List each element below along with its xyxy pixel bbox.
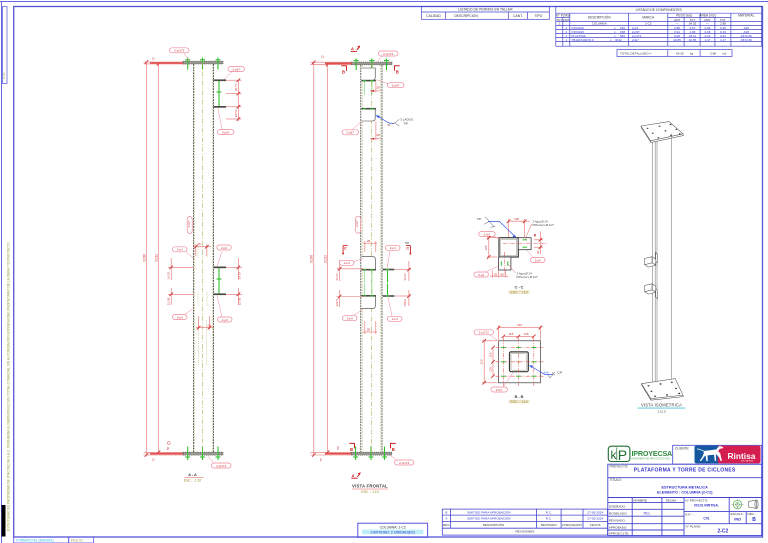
svg-text:REVISIONES: REVISIONES	[515, 530, 534, 534]
svg-text:REVISADO:: REVISADO:	[609, 518, 626, 522]
svg-text:LISTADO DE COMPONENTES: LISTADO DE COMPONENTES	[636, 8, 683, 12]
mid clip2 top bar	[361, 295, 376, 297]
tube edge left	[193, 64, 195, 452]
svg-text:CALIDAD: CALIDAD	[426, 14, 441, 18]
weld note CJP	[529, 365, 562, 378]
blue data rows	[565, 26, 752, 42]
svg-text:00101 RINTISA.: 00101 RINTISA.	[694, 504, 719, 508]
svg-text:3.012: 3.012	[154, 254, 158, 262]
svg-text:100.9: 100.9	[403, 299, 407, 307]
svg-text:FORMATO A1 (594x841): FORMATO A1 (594x841)	[16, 539, 54, 543]
svg-text:REV. :: REV. :	[748, 512, 757, 516]
svg-text:31: 31	[387, 123, 391, 127]
TABLE: LISTADO DE COMPONENTES	[556, 7, 762, 57]
label 2-tb7	[479, 232, 500, 240]
tube square	[499, 238, 518, 257]
weld marks clips	[218, 81, 220, 293]
svg-text:2-p4: 2-p4	[390, 246, 396, 250]
label 2-p4 d	[217, 296, 232, 323]
svg-text:2-p4: 2-p4	[221, 246, 227, 250]
svg-text:REVISADO: REVISADO	[541, 523, 558, 527]
hidden hole lines mid	[198, 247, 207, 366]
svg-text:3012: 3012	[615, 38, 622, 42]
svg-text:AREA (m2): AREA (m2)	[699, 13, 716, 17]
svg-text:PLATAFORMA Y TORRE DE CICLONES: PLATAFORMA Y TORRE DE CICLONES	[634, 468, 736, 474]
bottom plate	[499, 257, 511, 270]
svg-text:ESTRUCTURA METALICA: ESTRUCTURA METALICA	[661, 485, 708, 489]
label 2-p4 b	[217, 245, 232, 267]
svg-text:27-05-2024: 27-05-2024	[587, 517, 603, 521]
small table labels	[609, 498, 756, 535]
label 2-p/172 bottom	[207, 455, 231, 468]
bottom B markers	[350, 447, 395, 452]
svg-text:118: 118	[509, 332, 514, 336]
svg-text:p: p	[153, 57, 155, 61]
svg-text:40.85: 40.85	[673, 38, 681, 42]
svg-text:RCL: RCL	[644, 511, 651, 515]
dim 125 left	[484, 236, 500, 259]
svg-text:2-p4: 2-p4	[177, 315, 183, 319]
section marker A top	[351, 46, 361, 52]
title	[638, 403, 686, 414]
svg-text:2-tb7: 2-tb7	[632, 38, 639, 42]
dims 25 50 bottom	[490, 271, 508, 278]
svg-text:p: p	[153, 458, 155, 462]
svg-text:310: 310	[480, 359, 484, 364]
red thick plate edge top	[150, 62, 183, 64]
svg-text:DESCRIPCION: DESCRIPCION	[454, 14, 478, 18]
R marker + dim 28 right	[534, 231, 543, 254]
note 2 aguj bottom	[517, 272, 538, 280]
mid dims right	[395, 261, 411, 306]
label 2-tb7	[491, 373, 513, 393]
svg-text:12.05: 12.05	[237, 297, 241, 305]
svg-text:R.C.: R.C.	[546, 517, 552, 521]
red centerline horizontal	[503, 243, 548, 245]
red centerline vertical	[504, 252, 506, 275]
svg-text:P/Perno's Ø 1/2": P/Perno's Ø 1/2"	[533, 223, 554, 227]
weld marks top	[354, 59, 389, 71]
label 2-p4 left-bottom	[474, 266, 499, 277]
svg-text:54.35: 54.35	[676, 52, 684, 56]
BOTTOM CENTER BOX: COLUMNA 2-C2	[358, 523, 428, 537]
svg-text:COLUMNA: COLUMNA	[592, 22, 607, 26]
dim 28 center top	[194, 242, 211, 256]
mid welds green verticals	[364, 271, 372, 296]
svg-text:2-p/172: 2-p/172	[479, 331, 490, 335]
weld marks top	[185, 58, 220, 70]
center dot	[517, 361, 519, 363]
svg-text:28: 28	[367, 239, 371, 243]
base plate	[642, 379, 684, 399]
svg-text:p: p	[320, 457, 322, 461]
label 2-p/172	[474, 330, 499, 342]
svg-text:128: 128	[514, 217, 519, 221]
svg-text:EMITIDO PARA APROBACIÓN: EMITIDO PARA APROBACIÓN	[467, 509, 510, 514]
svg-text:C: C	[406, 247, 409, 251]
svg-text:FECHA: FECHA	[590, 523, 601, 527]
svg-text:ESTE PLANO ES PROPIEDAD DE IPR: ESTE PLANO ES PROPIEDAD DE IPROYECSA S.A…	[7, 242, 11, 531]
svg-text:IND: IND	[734, 517, 741, 522]
svg-text:2-tb7: 2-tb7	[355, 220, 359, 227]
clip 1 top right	[214, 79, 227, 81]
svg-text:14.27: 14.27	[335, 273, 339, 281]
label 2-p67 clip2	[342, 121, 362, 135]
mid-right dims	[226, 258, 242, 305]
clip iso 2	[645, 284, 657, 294]
svg-text:2-C2: 2-C2	[717, 529, 728, 535]
svg-text:P/Perno's Ø 1/2": P/Perno's Ø 1/2"	[517, 275, 538, 279]
label 2-p/172 bottom	[390, 455, 414, 465]
svg-text:REV.: REV.	[443, 523, 450, 527]
label 2-p4 c	[173, 308, 195, 320]
svg-text:28: 28	[197, 242, 201, 246]
svg-text:TOTAL DETALLADO =: TOTAL DETALLADO =	[620, 52, 651, 56]
total row	[620, 52, 727, 56]
mid clip2 rect	[361, 296, 375, 309]
svg-text:DISEÑADO:: DISEÑADO:	[609, 504, 626, 509]
dim 28 clip1	[370, 82, 380, 93]
svg-text:CANT.: CANT.	[513, 14, 523, 18]
svg-text:14.07: 14.07	[237, 271, 241, 279]
svg-text:267.5: 267.5	[234, 109, 238, 117]
svg-text:DESCRIPCIÓN: DESCRIPCIÓN	[483, 522, 505, 527]
svg-text:12.05: 12.05	[167, 297, 171, 305]
red thick plate edge bottom	[325, 453, 351, 455]
svg-text:2-p67: 2-p67	[392, 84, 400, 88]
base plate	[351, 452, 392, 455]
svg-text:40.85: 40.85	[689, 38, 697, 42]
label 2-p/172 top	[170, 48, 190, 61]
svg-text:kg: kg	[690, 52, 694, 56]
svg-text:B - B: B - B	[515, 395, 524, 399]
svg-text:TIP.: TIP.	[477, 217, 482, 221]
label 2-p67 top2	[218, 109, 235, 135]
svg-text:MATERIAL: MATERIAL	[738, 13, 754, 17]
tube edge right	[213, 64, 215, 452]
svg-text:3.012: 3.012	[323, 255, 327, 263]
svg-text:2-tb7: 2-tb7	[483, 232, 490, 236]
dim 118 118 top	[502, 332, 536, 338]
mid clip1 rect	[361, 257, 375, 270]
logo IPROYECSA	[608, 446, 672, 463]
svg-text:2.88: 2.88	[710, 52, 716, 56]
right top dims	[226, 80, 242, 121]
svg-text:LISTADO DE PERNOS EN TALLER: LISTADO DE PERNOS EN TALLER	[458, 8, 513, 12]
svg-text:28.77: 28.77	[234, 83, 238, 91]
section marker A bottom	[351, 472, 361, 478]
svg-text:2-p4: 2-p4	[222, 318, 228, 322]
tube edges	[360, 65, 362, 452]
label 2-p4 right	[527, 251, 545, 263]
svg-text:1.17: 1.17	[705, 38, 711, 42]
dim 28 mid top	[363, 239, 377, 252]
top plate holes	[647, 124, 681, 138]
svg-text:UNIT.: UNIT.	[563, 18, 570, 22]
clip 3 mid right	[214, 267, 227, 269]
shaft	[651, 142, 653, 389]
base plate	[183, 452, 223, 455]
svg-text:E.P. - :: E.P. - :	[686, 513, 695, 517]
svg-text:28: 28	[377, 86, 381, 90]
left margin strip box	[2, 7, 7, 84]
hole marks right plate	[523, 240, 528, 247]
svg-text:118: 118	[524, 332, 529, 336]
svg-text:310: 310	[517, 323, 522, 327]
label 2-p67 top1	[224, 67, 245, 80]
svg-text:B: B	[445, 510, 447, 514]
top plate	[352, 62, 393, 65]
dim 310 top	[497, 323, 543, 340]
svg-text:C: C	[344, 247, 347, 251]
svg-text:CHEQUEADO: CHEQUEADO	[562, 523, 583, 527]
svg-text:CJP: CJP	[557, 371, 562, 375]
B markers top	[342, 70, 399, 75]
svg-text:B: B	[752, 517, 756, 523]
svg-text:TB100X100X6.0: TB100X100X6.0	[572, 38, 594, 42]
svg-text:PROYECTO:: PROYECTO:	[610, 465, 629, 469]
svg-text:ESC. : 1:10: ESC. : 1:10	[510, 400, 527, 404]
svg-text:B: B	[342, 70, 345, 75]
svg-text:MODELADO:: MODELADO:	[609, 511, 628, 515]
dim 310 left	[480, 339, 497, 385]
red thick plate edge top	[325, 62, 352, 64]
svg-text:S=6: S=6	[544, 371, 549, 375]
svg-text:APROBADO:: APROBADO:	[609, 525, 628, 529]
svg-text:14.27: 14.27	[403, 273, 407, 281]
label 2-p/172 top	[377, 51, 398, 62]
svg-text:TIP.: TIP.	[403, 121, 408, 125]
svg-text:FILE 01: FILE 01	[71, 539, 83, 543]
svg-text:2-p4: 2-p4	[535, 258, 541, 262]
tube square	[510, 352, 529, 372]
centerline	[202, 62, 204, 454]
weld marks bottom	[353, 447, 387, 461]
dim ticks	[145, 60, 161, 457]
svg-text:C01: C01	[703, 517, 709, 521]
base plate holes	[648, 382, 681, 397]
svg-text:TIPO: TIPO	[534, 14, 542, 18]
tube hidden lines	[195, 64, 213, 452]
svg-text:2-p67: 2-p67	[232, 67, 240, 71]
TABLE: LISTADO DE PERNOS EN TALLER	[422, 7, 550, 20]
svg-text:50: 50	[166, 447, 170, 451]
svg-text:2-p4: 2-p4	[177, 248, 183, 252]
note 2 aguj top	[533, 220, 554, 228]
svg-text:2-p67: 2-p67	[222, 130, 230, 134]
svg-text:B: B	[396, 70, 399, 75]
clip1 welds	[363, 80, 374, 82]
svg-text:2-p/172: 2-p/172	[383, 52, 394, 56]
svg-text:2-p/172: 2-p/172	[216, 464, 227, 468]
svg-text:122.5: 122.5	[335, 299, 339, 307]
svg-text:2-p4: 2-p4	[478, 273, 484, 277]
svg-text:ELEMENTO : COLUMNA [2-C2]: ELEMENTO : COLUMNA [2-C2]	[657, 490, 713, 494]
red centerlines	[496, 338, 544, 386]
svg-text:DESCRIPCIÓN: DESCRIPCIÓN	[588, 15, 612, 20]
svg-text:B: B	[392, 447, 395, 452]
row1 dark	[558, 22, 726, 26]
svg-text:C-02: C-02	[2, 72, 6, 79]
svg-text:12: 12	[320, 55, 324, 59]
svg-text:TITULO:: TITULO:	[610, 478, 622, 482]
svg-text:FECHA: FECHA	[666, 498, 677, 502]
dim 28 center bottom	[196, 316, 214, 330]
cliente box	[673, 445, 762, 464]
svg-text:118: 118	[488, 367, 492, 372]
clip iso 1	[645, 257, 657, 267]
svg-text:25: 25	[494, 272, 498, 276]
svg-text:2-tb7: 2-tb7	[187, 220, 191, 227]
dim extension lines	[311, 62, 357, 455]
mid clip1 far bar	[383, 269, 395, 271]
mid labels	[340, 259, 364, 266]
label 2-tb7 rotated	[187, 217, 192, 234]
centerline	[370, 63, 372, 454]
svg-text:50: 50	[336, 446, 340, 450]
svg-text:1:12.5: 1:12.5	[657, 409, 666, 413]
svg-text:m2: m2	[722, 52, 727, 56]
svg-text:2-p/172: 2-p/172	[174, 49, 185, 53]
svg-text:A572-50: A572-50	[741, 38, 753, 42]
svg-text:N° PZAS: N° PZAS	[556, 13, 570, 17]
mid welds green ticks	[363, 270, 389, 297]
bolt hole marks green	[501, 348, 536, 377]
clip2 top bar	[361, 108, 376, 110]
svg-text:CLIENTE:: CLIENTE:	[675, 447, 689, 451]
svg-text:APROB.CLTE:: APROB.CLTE:	[609, 531, 629, 535]
svg-text:Rintisa: Rintisa	[728, 451, 756, 461]
svg-text:PESO (kg): PESO (kg)	[676, 13, 692, 17]
label 2-p4 a	[173, 247, 194, 258]
clip 4 mid right	[214, 293, 227, 295]
svg-text:RIN TISA PERU: RIN TISA PERU	[741, 460, 754, 463]
svg-text:2-p4: 2-p4	[392, 317, 398, 321]
tube hidden lines	[362, 65, 380, 452]
mid clip2 far bar	[383, 295, 395, 297]
svg-text:2-C2: 2-C2	[645, 22, 652, 26]
svg-text:MARCA: MARCA	[642, 16, 655, 20]
projection icons	[732, 499, 744, 510]
svg-text:NOMBRE: NOMBRE	[633, 498, 647, 502]
svg-text:A: A	[352, 473, 355, 478]
label 2-tb7 rotated front	[355, 216, 360, 233]
svg-text:50: 50	[500, 272, 504, 276]
svg-text:ESC. : 1:10: ESC. : 1:10	[184, 478, 201, 482]
svg-text:B: B	[350, 447, 353, 452]
top plate	[183, 61, 223, 64]
svg-text:VISTA FRONTAL: VISTA FRONTAL	[352, 483, 388, 488]
svg-text:ESC. : 1:10: ESC. : 1:10	[361, 490, 378, 494]
svg-text:N° PLANO:: N° PLANO:	[686, 524, 702, 528]
svg-text:TIP.: TIP.	[405, 241, 410, 245]
mid clip1 bottom bar	[361, 269, 376, 271]
red thick plate edge bottom	[150, 453, 183, 455]
label 2-p67 clip1	[376, 80, 404, 88]
svg-text:COLUMNA: 2-C2: COLUMNA: 2-C2	[380, 526, 406, 530]
svg-text:INGENIERIA DE PROYECTOS SAC: INGENIERIA DE PROYECTOS SAC	[632, 458, 671, 461]
svg-text:N° PROYECTO:: N° PROYECTO:	[686, 498, 709, 502]
dim 128 top	[507, 217, 530, 237]
clip1 rect	[361, 68, 375, 80]
dim 28 clip2	[370, 122, 380, 141]
svg-text:2-p67: 2-p67	[346, 131, 354, 135]
base plate square	[499, 341, 541, 383]
svg-text:A - A: A - A	[188, 473, 197, 477]
clip2 welds	[363, 108, 374, 110]
svg-text:1.17: 1.17	[720, 38, 726, 42]
svg-text:CANTIDAD: 2 UNIDAD(ES): CANTIDAD: 2 UNIDAD(ES)	[371, 530, 415, 534]
svg-text:2-tb7: 2-tb7	[496, 388, 503, 392]
svg-text:ESC. : 1:10: ESC. : 1:10	[510, 290, 527, 294]
svg-text:14.07: 14.07	[167, 271, 171, 279]
svg-text:28: 28	[536, 251, 540, 255]
svg-text:2-p4: 2-p4	[344, 261, 350, 265]
top plate	[641, 122, 683, 141]
mid dims left	[337, 260, 365, 307]
svg-text:3.036: 3.036	[310, 255, 314, 263]
clip1 bottom bar	[361, 80, 376, 82]
svg-text:27-05-2024: 27-05-2024	[587, 510, 603, 514]
hole marks bottom plate	[501, 261, 508, 266]
logo Rintisa	[695, 446, 761, 464]
dim 118 118 left	[488, 346, 494, 378]
clip2 rect	[361, 109, 375, 121]
svg-text:2-p4: 2-p4	[347, 317, 353, 321]
weld TIP top-left	[477, 217, 517, 238]
svg-text:EMITIDO PARA APROBACIÓN: EMITIDO PARA APROBACIÓN	[467, 516, 510, 521]
3 LADOS TIP note	[376, 115, 413, 127]
svg-text:28: 28	[377, 133, 381, 137]
svg-text:R.C.: R.C.	[546, 510, 552, 514]
wire dim extension top	[144, 62, 191, 455]
bottom strip boxes	[14, 537, 94, 543]
mid-left dims	[168, 258, 194, 305]
svg-text:P: P	[618, 447, 627, 463]
weld marks bottom	[185, 447, 220, 461]
svg-text:A: A	[351, 46, 354, 51]
black block	[2, 505, 6, 537]
svg-text:3.036: 3.036	[142, 254, 146, 262]
svg-text:C - C: C - C	[515, 285, 524, 289]
svg-text:2-p/172: 2-p/172	[399, 461, 410, 465]
C markers mid	[344, 247, 409, 251]
svg-text:118: 118	[488, 352, 492, 357]
right plate	[518, 238, 531, 250]
svg-text:28: 28	[367, 328, 371, 332]
clip 2 top right	[214, 106, 227, 108]
svg-text:VISTA ISOMETRICA: VISTA ISOMETRICA	[641, 403, 682, 408]
svg-text:125: 125	[484, 245, 488, 250]
TITLE BLOCK	[608, 445, 762, 535]
REVISIONS TABLE	[442, 509, 607, 535]
dim 28 mid bottom	[363, 321, 377, 334]
